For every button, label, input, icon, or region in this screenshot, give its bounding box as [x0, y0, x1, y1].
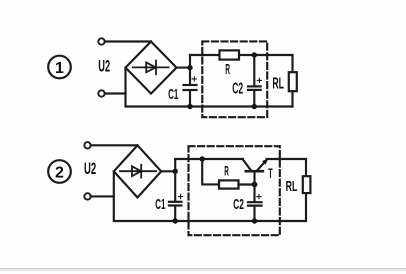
wire [253, 91, 255, 107]
wire (emitter to load RL, circuit 2) [267, 159, 307, 176]
wire [91, 144, 138, 146]
node (bottom rail / C2 bottom, circuit 1) [252, 104, 257, 109]
dashed regulator block box (circuit 2) [189, 146, 280, 235]
svg-text:U2: U2 [98, 58, 110, 76]
bridge rectifier B2 [114, 145, 161, 197]
wire (left vertex down to bottom rail, rail to RL, circuit 2) [114, 171, 306, 221]
wire (base node down to C2, circuit 2) [253, 185, 255, 202]
capacitor C2 (circuit 1) [248, 86, 261, 90]
node (bottom rail / C1 bottom, circuit 1) [187, 104, 192, 109]
wire [105, 40, 151, 42]
polarity plus of C1 (circuit 2) [179, 194, 183, 198]
wire [305, 193, 307, 221]
svg-text:U2: U2 [84, 160, 96, 178]
wire [253, 55, 255, 86]
capacitor C1 (circuit 2) [169, 202, 181, 206]
wire (right vertex to node, circuit 2) [161, 170, 175, 172]
node (bridge output / C1 top, circuit 1) [187, 65, 192, 70]
resistor R (circuit 2) [219, 180, 239, 188]
diode inside bridge B2 [120, 165, 156, 178]
polarity plus of C2 (circuit 2) [257, 195, 261, 199]
wire [189, 91, 191, 107]
terminal J4 (AC input bottom, circuit 2) [84, 193, 90, 199]
wire [105, 92, 126, 94]
wire [91, 195, 114, 197]
wire (node up to top rail corner) [189, 55, 191, 84]
capacitor C2 (circuit 2) [248, 202, 262, 205]
svg-text:T: T [268, 165, 273, 181]
svg-text:C2: C2 [232, 81, 243, 98]
svg-text:C1: C1 [155, 197, 165, 213]
circled label 2 [48, 160, 71, 183]
bottom hairline rule [0, 268, 406, 269]
svg-text:C2: C2 [233, 197, 244, 213]
node (R output / C2 top, circuit 1) [252, 52, 257, 57]
node (bottom rail / C1 bottom, circuit 2) [173, 218, 178, 223]
wire [253, 207, 255, 221]
bridge rectifier B1 [126, 42, 177, 94]
wire [291, 91, 293, 106]
wire (down to load RL, circuit 1) [291, 55, 293, 72]
wire (top rail to transistor collector, circuit 2) [175, 158, 243, 160]
wire (right vertex to node) [177, 67, 191, 69]
diode inside bridge B1 [133, 61, 169, 75]
circled label 1 [48, 56, 71, 79]
node (base / R / C2 junction, circuit 2) [252, 182, 258, 188]
polarity plus of C1 (circuit 1) [192, 77, 196, 81]
wire [239, 183, 255, 185]
node (bridge output / C1 top, circuit 2) [173, 169, 178, 174]
capacitor C1 (circuit 1) [184, 85, 197, 90]
resistor R (circuit 1) [220, 50, 240, 59]
svg-text:R: R [224, 162, 229, 178]
terminal J3 (AC input top, circuit 2) [84, 142, 90, 148]
wire (node up to top rail corner, circuit 2) [174, 159, 176, 201]
transistor T (series pass, circuit 2) [243, 159, 269, 185]
svg-text:RL: RL [272, 76, 284, 93]
node (top rail / R branch, circuit 2) [200, 156, 205, 161]
terminal J1 (AC input top, circuit 1) [98, 38, 104, 44]
load resistor RL (circuit 1) [289, 72, 297, 91]
wire (top rail into regulator box) [190, 54, 220, 56]
load resistor RL (circuit 2) [303, 176, 311, 193]
svg-text:R: R [225, 62, 230, 78]
polarity plus of C2 (circuit 1) [257, 78, 261, 82]
wire (down and right to R, circuit 2) [202, 159, 219, 184]
wire [174, 207, 176, 222]
svg-text:C1: C1 [168, 87, 178, 103]
wire [239, 54, 293, 56]
node (bottom rail / C2 bottom, circuit 2) [252, 218, 257, 223]
wire (left vertex down to bottom rail, bottom rail to RL) [126, 68, 293, 107]
dashed filter block box (circuit 1) [202, 41, 267, 117]
svg-text:2: 2 [55, 165, 64, 182]
terminal J2 (AC input bottom, circuit 1) [98, 90, 104, 96]
svg-text:RL: RL [286, 179, 298, 195]
svg-text:1: 1 [55, 60, 64, 77]
